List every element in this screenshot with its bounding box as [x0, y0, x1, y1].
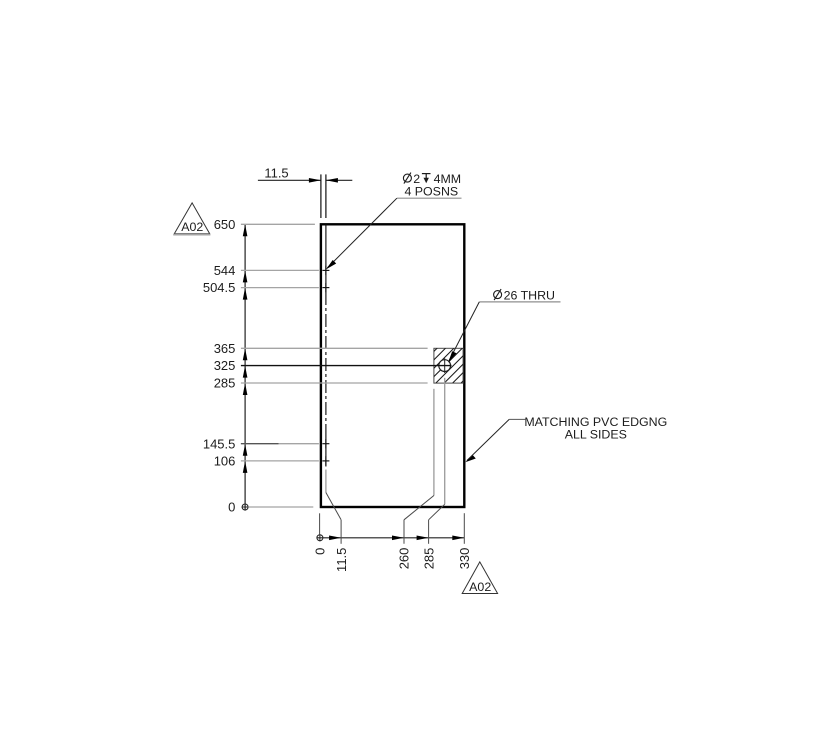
bottom dimension line — [317, 537, 465, 539]
extension line 145.5 — [241, 443, 319, 445]
callout D2 arrow — [326, 260, 336, 269]
note PVC shoulder — [509, 418, 525, 420]
ext 260 jog — [404, 496, 434, 520]
ext 260 gray vertical — [433, 389, 435, 496]
callout D2 text line1 diameter symbol — [403, 173, 411, 184]
extension line 0 — [248, 506, 313, 508]
small-hole centerline (dash-dot) — [325, 224, 327, 292]
dim 11.5 ext line left — [320, 174, 322, 218]
svg-text:4MM: 4MM — [434, 172, 462, 186]
callout D2 depth symbol — [422, 174, 431, 184]
svg-text:325: 325 — [214, 358, 236, 373]
up arrow — [243, 444, 248, 456]
left origin circle — [242, 504, 248, 510]
ext 11.5 gray segment — [325, 470, 327, 493]
extension line 285 — [241, 382, 428, 384]
left dimension line — [244, 224, 246, 510]
note PVC leader — [467, 419, 509, 460]
up arrow — [243, 224, 248, 236]
small hole mark at 544 — [322, 266, 329, 275]
hole D26 circle — [439, 360, 451, 372]
zone triangle A02 top — [173, 203, 210, 235]
extension line 650 — [241, 223, 315, 225]
extension line 106 — [241, 460, 319, 462]
ext 11.5 tick — [340, 520, 342, 544]
up arrow — [243, 348, 248, 360]
right arrow — [392, 536, 404, 541]
svg-text:260: 260 — [397, 548, 412, 570]
hole D26 vertical centerline — [444, 358, 446, 373]
dim 11.5 ext line right — [325, 174, 327, 218]
callout D2 shoulder — [397, 197, 462, 199]
zone triangle A02 bottom — [462, 562, 497, 594]
small hole mark at 145.5 — [322, 439, 329, 448]
ext 285 gray vertical — [444, 378, 446, 505]
extension line 544 — [241, 269, 319, 271]
dim 11.5 line left — [258, 179, 321, 181]
bottom origin crosshair — [319, 534, 321, 541]
callout D26 shoulder — [479, 301, 560, 303]
up arrow — [243, 270, 248, 282]
small hole mark at 504.5 — [322, 283, 329, 292]
callout D26 leader — [449, 302, 479, 361]
corner ext to origin — [319, 513, 321, 534]
svg-text:26 THRU: 26 THRU — [504, 288, 555, 302]
right arrow — [329, 536, 341, 541]
callout D26 diameter symbol — [494, 289, 502, 300]
small hole mark at 106 — [322, 456, 329, 465]
svg-text:504.5: 504.5 — [203, 280, 236, 295]
extension line 504.5 — [241, 287, 319, 289]
svg-text:285: 285 — [421, 548, 436, 570]
svg-text:544: 544 — [214, 263, 236, 278]
dark segment 145.5 — [241, 443, 279, 445]
ext 285 tick — [428, 520, 430, 544]
svg-text:11.5: 11.5 — [264, 165, 288, 180]
svg-text:0: 0 — [228, 500, 235, 515]
dim 11.5 line right — [326, 179, 352, 181]
ext 11.5 jog — [326, 493, 341, 520]
up arrow — [243, 461, 248, 473]
bottom origin circle — [317, 535, 323, 541]
up arrow — [243, 366, 248, 378]
ext 330 — [463, 513, 465, 544]
dimension line 325 to hole — [241, 365, 452, 367]
svg-text:145.5: 145.5 — [203, 436, 236, 451]
callout D26 arrow — [448, 351, 456, 362]
svg-text:ALL SIDES: ALL SIDES — [565, 427, 627, 441]
svg-text:0: 0 — [313, 548, 328, 555]
svg-text:285: 285 — [214, 376, 236, 391]
svg-text:A02: A02 — [469, 580, 491, 594]
svg-text:650: 650 — [214, 217, 236, 232]
note PVC arrow — [465, 455, 476, 462]
callout D2 leader — [327, 198, 397, 268]
dim 11.5 arrow right — [326, 178, 338, 183]
svg-text:2: 2 — [413, 172, 420, 186]
left origin crosshair — [242, 506, 249, 508]
dim 11.5 arrow left — [309, 178, 321, 183]
up arrow — [243, 383, 248, 395]
extension line 365 — [241, 347, 428, 349]
svg-text:330: 330 — [457, 548, 472, 570]
svg-text:A02: A02 — [181, 220, 203, 234]
right arrow — [452, 536, 464, 541]
right arrow — [417, 536, 429, 541]
hatched cutout zone 260-330 x 285-365 — [394, 323, 614, 383]
ext 285 jog — [429, 504, 445, 520]
up arrow — [243, 288, 248, 300]
svg-text:4 POSNS: 4 POSNS — [404, 185, 458, 199]
panel outline 330x650 — [321, 224, 464, 507]
svg-text:11.5: 11.5 — [334, 548, 349, 572]
ext 260 tick — [403, 520, 405, 544]
svg-text:106: 106 — [214, 454, 236, 469]
svg-text:365: 365 — [214, 341, 236, 356]
